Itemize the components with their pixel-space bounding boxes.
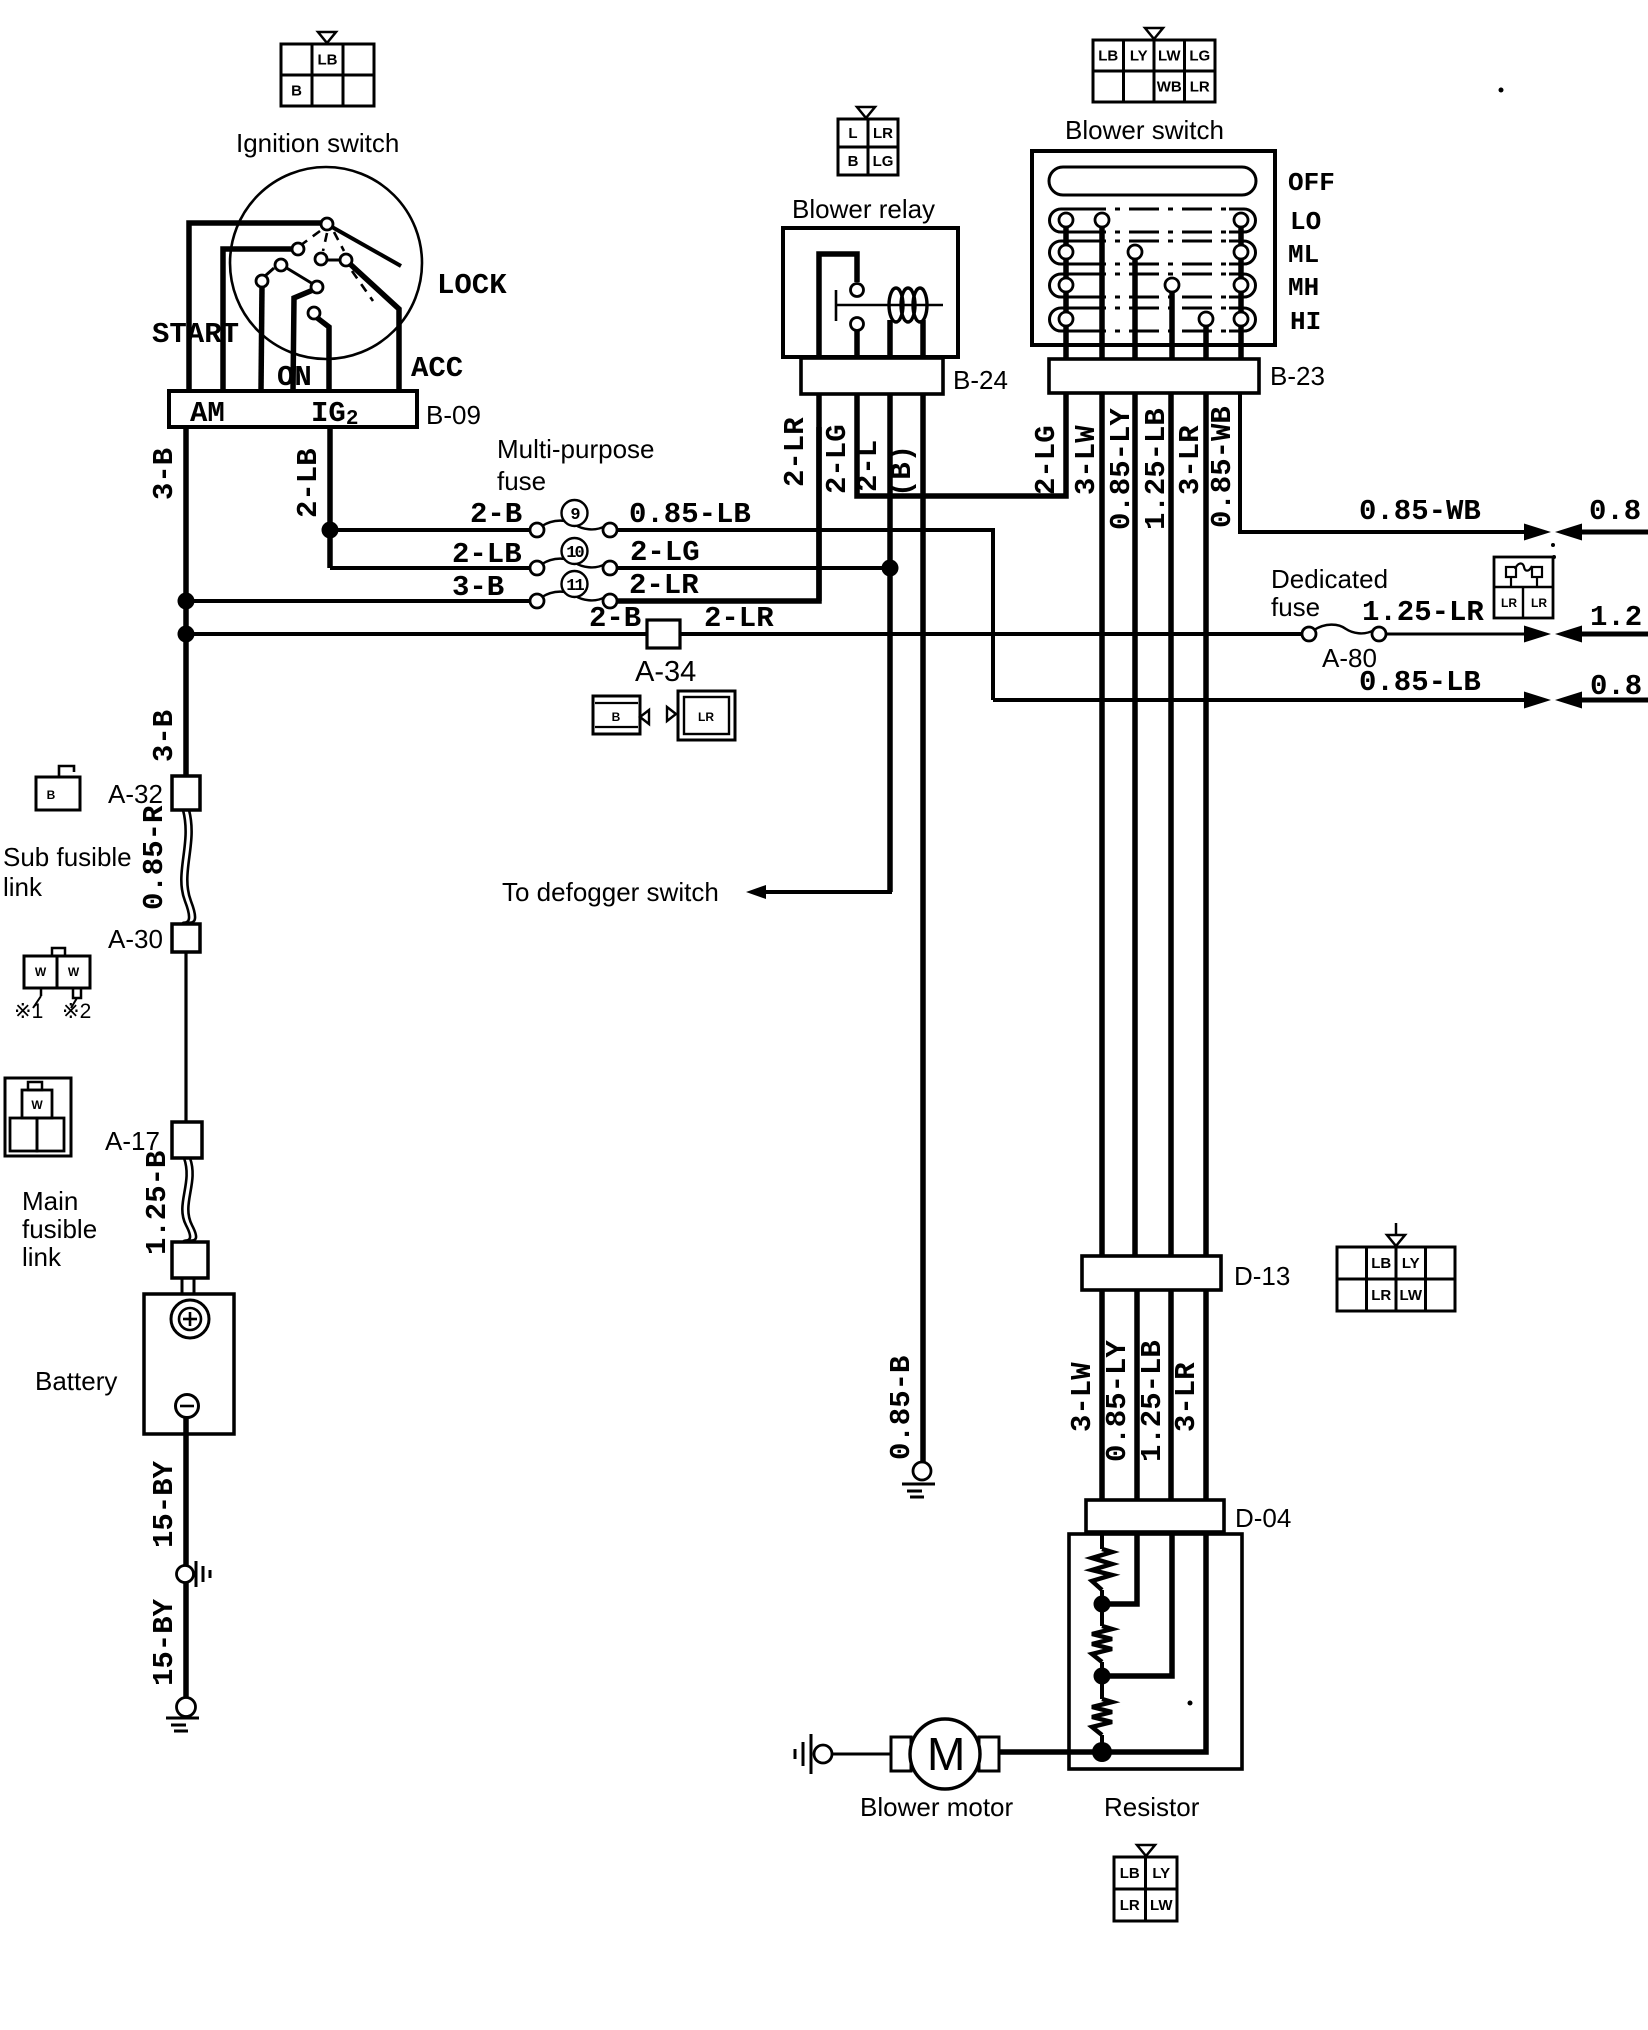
svg-text:LB: LB	[1098, 48, 1118, 65]
svg-text:A-34: A-34	[635, 656, 696, 688]
node tap 2	[1094, 1668, 1111, 1685]
svg-text:0.85-R: 0.85-R	[138, 805, 171, 910]
connector D-13	[1082, 1256, 1221, 1290]
LO row slot	[1050, 209, 1077, 232]
svg-text:0.85-B: 0.85-B	[885, 1356, 918, 1460]
svg-text:LR: LR	[1190, 79, 1210, 96]
svg-text:W: W	[35, 965, 47, 979]
svg-text:11: 11	[566, 577, 584, 596]
svg-text:0.85-LY: 0.85-LY	[1105, 408, 1138, 530]
wire 0.85-WB row	[1240, 393, 1530, 532]
resistor box	[1069, 1534, 1242, 1769]
svg-text:3-LR: 3-LR	[1174, 425, 1207, 495]
svg-text:LR: LR	[1120, 1897, 1140, 1914]
svg-text:3-B: 3-B	[148, 448, 181, 500]
svg-text:B-23: B-23	[1270, 361, 1325, 391]
svg-text:B: B	[848, 153, 859, 170]
wire 3-B from B-09 AM down	[183, 427, 189, 776]
wire 15-BY	[183, 1417, 189, 1566]
connector half symbol LR	[667, 707, 676, 721]
svg-text:LR: LR	[1371, 1287, 1391, 1304]
svg-text:AM: AM	[190, 397, 225, 430]
connector A-34	[647, 620, 680, 648]
wire 1.25-LB switch pin	[1168, 393, 1174, 1256]
wire 0.85-LB lower row	[993, 698, 1530, 702]
svg-text:W: W	[31, 1098, 43, 1112]
wire 0.85-LY switch pin	[1132, 393, 1138, 1256]
arrows 0.85-WB off page	[1524, 524, 1551, 541]
wire 2-LG from fuse 10 to relay coil	[617, 566, 890, 570]
ground circle mid	[177, 1566, 194, 1583]
svg-text:LO: LO	[1290, 207, 1321, 237]
svg-text:LG: LG	[873, 153, 894, 170]
node motor junction	[1092, 1742, 1112, 1762]
svg-text:LY: LY	[1402, 1255, 1420, 1272]
wire 0.85-LB from fuse 9	[617, 530, 993, 700]
svg-text:ML: ML	[1288, 240, 1319, 270]
svg-text:B-09: B-09	[426, 400, 481, 430]
svg-text:2-L: 2-L	[852, 440, 885, 492]
svg-text:LY: LY	[1130, 48, 1148, 65]
svg-text:0.85-LB: 0.85-LB	[1359, 666, 1481, 699]
wire 15-BY lower	[183, 1583, 189, 1698]
connector grid for blower relay	[857, 107, 875, 118]
OFF row slot	[1049, 167, 1256, 195]
wire IG2 pin elbow	[316, 317, 329, 391]
svg-text:15-BY: 15-BY	[148, 1598, 181, 1686]
wire 1.25-LB to D-04	[1168, 1290, 1174, 1500]
svg-text:fuse: fuse	[1271, 592, 1320, 622]
connector B-09	[169, 391, 417, 427]
main fusible link symbol	[5, 1078, 71, 1156]
resistor R1	[1092, 1549, 1112, 1590]
wire to defogger switch	[766, 568, 890, 892]
svg-text:LOCK: LOCK	[437, 269, 507, 302]
dedicated fuse connector symbol LR LR	[1494, 557, 1553, 618]
node junction coil wire	[882, 560, 899, 577]
svg-text:0.8: 0.8	[1590, 670, 1642, 703]
svg-text:2-LR: 2-LR	[629, 569, 699, 602]
svg-text:2-B: 2-B	[470, 498, 522, 531]
blower switch box	[1032, 151, 1275, 345]
wire 2-L relay pin	[887, 394, 893, 892]
svg-text:Main: Main	[22, 1186, 78, 1216]
node junction 3-B/A-34 row	[178, 626, 195, 643]
svg-text:fuse: fuse	[497, 466, 546, 496]
svg-text:LR: LR	[1531, 596, 1547, 610]
svg-text:2-LB: 2-LB	[452, 538, 522, 571]
fold specks	[1551, 543, 1555, 547]
LOCK pointer line	[332, 227, 401, 266]
svg-text:HI: HI	[1290, 307, 1321, 337]
svg-text:Resistor: Resistor	[1104, 1792, 1200, 1822]
wire 3-LW switch pin	[1099, 393, 1105, 1256]
svg-text:1.25-LB: 1.25-LB	[1140, 408, 1173, 530]
svg-text:To defogger switch: To defogger switch	[502, 877, 719, 907]
switch contact circles	[1059, 213, 1073, 227]
wire 2-LB to fuse 10	[330, 566, 530, 570]
svg-text:Blower relay: Blower relay	[792, 194, 935, 224]
wire 2-LG relay pin	[857, 393, 1066, 496]
svg-text:Ignition switch: Ignition switch	[236, 128, 399, 158]
svg-text:M: M	[927, 1728, 965, 1780]
battery terminal connector	[172, 1242, 208, 1278]
wire AM from top contact	[189, 223, 322, 391]
svg-text:Blower motor: Blower motor	[860, 1792, 1013, 1822]
svg-text:0.85-WB: 0.85-WB	[1206, 406, 1239, 528]
battery	[181, 1278, 184, 1302]
node tap 1	[1094, 1596, 1111, 1613]
svg-text:LR: LR	[873, 125, 893, 142]
wire ON pin elbow	[293, 290, 313, 391]
wire 2-LB from IG2 down	[327, 427, 333, 568]
connector grid for blower switch	[1145, 28, 1163, 39]
sub fusible link wavy wire 0.85-R	[181, 810, 189, 924]
wire 3-LW to D-04	[1099, 1290, 1105, 1500]
relay contact arm	[819, 254, 857, 359]
svg-text:A-32: A-32	[108, 779, 163, 809]
svg-text:A-30: A-30	[108, 924, 163, 954]
contact stub	[265, 268, 274, 276]
relay coil	[889, 288, 927, 322]
wire 0.85-LY to D-04	[1134, 1290, 1140, 1500]
svg-text:Multi-purpose: Multi-purpose	[497, 434, 655, 464]
MH row slot	[1050, 274, 1077, 297]
svg-text:START: START	[152, 318, 239, 351]
svg-text:2-LR: 2-LR	[779, 417, 812, 487]
svg-text:※1: ※1	[14, 1000, 43, 1023]
blower motor M	[891, 1737, 911, 1771]
svg-text:(B): (B)	[886, 445, 919, 497]
svg-text:LR: LR	[1501, 596, 1517, 610]
ignition switch circle	[230, 167, 422, 359]
svg-text:2-LG: 2-LG	[630, 536, 700, 569]
svg-text:OFF: OFF	[1288, 168, 1335, 198]
main fusible link wavy wire 1.25-B	[182, 1158, 190, 1242]
wire 2-B to fuse 9	[330, 528, 530, 532]
solid link between middle contacts	[326, 259, 341, 262]
connector A-30	[172, 924, 200, 952]
resistor R2	[1092, 1626, 1112, 1662]
svg-text:link: link	[3, 872, 43, 902]
svg-text:10: 10	[566, 544, 584, 563]
connector A-32	[172, 776, 200, 810]
fuse 10 multi-purpose	[530, 561, 544, 575]
svg-text:D-13: D-13	[1234, 1261, 1290, 1291]
svg-text:1.2: 1.2	[1590, 601, 1642, 634]
svg-text:ACC: ACC	[411, 352, 463, 385]
stray mark top right	[1499, 88, 1504, 93]
svg-text:0.8: 0.8	[1589, 495, 1641, 528]
svg-text:2-LG: 2-LG	[821, 424, 854, 494]
connector grid right of D-13	[1395, 1223, 1398, 1235]
svg-text:3-LR: 3-LR	[1170, 1362, 1203, 1432]
fuse 11 multi-purpose	[530, 594, 544, 608]
svg-text:LY: LY	[1152, 1865, 1170, 1882]
svg-text:B: B	[291, 83, 302, 100]
svg-text:3-B: 3-B	[452, 571, 504, 604]
wire to A-17	[184, 952, 187, 1122]
svg-text:W: W	[68, 965, 80, 979]
connector grid for ignition switch B-09	[318, 32, 336, 43]
solid link left contacts	[285, 267, 313, 284]
wire 3-LR to D-04	[1203, 1290, 1209, 1500]
svg-text:fusible: fusible	[22, 1214, 97, 1244]
switch contacts	[321, 218, 333, 230]
wire to pin 2	[223, 249, 293, 391]
svg-text:2-LG: 2-LG	[1030, 425, 1063, 495]
svg-text:LR: LR	[698, 710, 714, 724]
switch column wires	[1063, 220, 1069, 359]
wire START pin	[261, 286, 262, 391]
wire B relay pin to ground	[920, 394, 926, 1462]
connector half symbol B at A-32	[36, 777, 80, 810]
svg-text:D-04: D-04	[1235, 1503, 1291, 1533]
svg-text:L: L	[848, 125, 857, 142]
svg-text:LW: LW	[1400, 1287, 1423, 1304]
svg-text:LB: LB	[318, 52, 338, 69]
svg-text:link: link	[22, 1242, 62, 1272]
svg-text:※2: ※2	[62, 1000, 91, 1023]
resistor element wires	[1100, 1532, 1104, 1549]
connector D-04	[1086, 1500, 1224, 1532]
svg-text:MH: MH	[1288, 273, 1319, 303]
svg-text:1.25-LR: 1.25-LR	[1362, 596, 1484, 629]
svg-text:WB: WB	[1157, 79, 1182, 96]
wire 2-LR from A-34 to dedicated fuse A-80	[680, 632, 1309, 636]
svg-text:0.85-LB: 0.85-LB	[629, 498, 751, 531]
svg-text:3-LW: 3-LW	[1066, 1362, 1099, 1432]
svg-text:15-BY: 15-BY	[148, 1460, 181, 1548]
node junction 3-B/fuse11	[178, 593, 195, 610]
connector A-17	[172, 1122, 202, 1158]
svg-text:3-LW: 3-LW	[1070, 425, 1103, 495]
svg-text:0.85-LY: 0.85-LY	[1101, 1340, 1134, 1462]
svg-text:LG: LG	[1189, 48, 1210, 65]
connector grid below resistor	[1137, 1845, 1155, 1856]
svg-text:Battery: Battery	[35, 1366, 117, 1396]
blower relay box	[783, 228, 958, 357]
HI row slot	[1050, 308, 1077, 331]
connector B-24	[801, 358, 943, 394]
wire 1.25-LR to arrows	[1386, 633, 1530, 636]
W W connector symbol	[52, 948, 65, 956]
connector B-23	[1049, 359, 1259, 393]
connector half symbol B	[593, 696, 640, 734]
wire motor to ground	[832, 1753, 891, 1756]
dashed rays from LOCK contact	[301, 231, 373, 301]
resistor R3	[1092, 1699, 1112, 1735]
svg-text:1.25-LB: 1.25-LB	[1136, 1340, 1169, 1462]
fuse 9 multi-purpose	[530, 523, 544, 537]
svg-text:2-LB: 2-LB	[292, 448, 325, 518]
svg-text:0.85-WB: 0.85-WB	[1359, 495, 1481, 528]
ML row slot	[1050, 241, 1077, 264]
svg-text:2-B: 2-B	[589, 602, 641, 635]
svg-text:LB: LB	[1120, 1865, 1140, 1882]
relay armature	[835, 290, 838, 321]
svg-text:B: B	[47, 788, 56, 802]
svg-text:1.25-B: 1.25-B	[141, 1151, 174, 1255]
svg-text:Sub fusible: Sub fusible	[3, 842, 132, 872]
svg-text:LB: LB	[1371, 1255, 1391, 1272]
svg-text:B-24: B-24	[953, 365, 1008, 395]
fuse A-80 dedicated	[1302, 627, 1316, 641]
wire ACC diagonal	[350, 264, 399, 391]
svg-text:Dedicated: Dedicated	[1271, 564, 1388, 594]
stray mark resistor	[1188, 1701, 1193, 1706]
wire 2-LR from fuse 11 to relay	[617, 427, 819, 601]
svg-text:3-B: 3-B	[148, 710, 181, 762]
node junction IG2/2-B	[322, 522, 339, 539]
svg-text:B: B	[612, 710, 621, 724]
svg-text:Blower switch: Blower switch	[1065, 115, 1224, 145]
wire 2-LR relay pin	[816, 394, 822, 601]
svg-text:LW: LW	[1158, 48, 1181, 65]
svg-text:2-LR: 2-LR	[704, 602, 774, 635]
ground end	[177, 1698, 196, 1717]
svg-text:LW: LW	[1150, 1897, 1173, 1914]
wire 2-B to A-34	[186, 632, 647, 636]
wire 3-LR switch pin	[1203, 393, 1209, 1256]
wire 3-B to fuse 11	[186, 599, 530, 603]
